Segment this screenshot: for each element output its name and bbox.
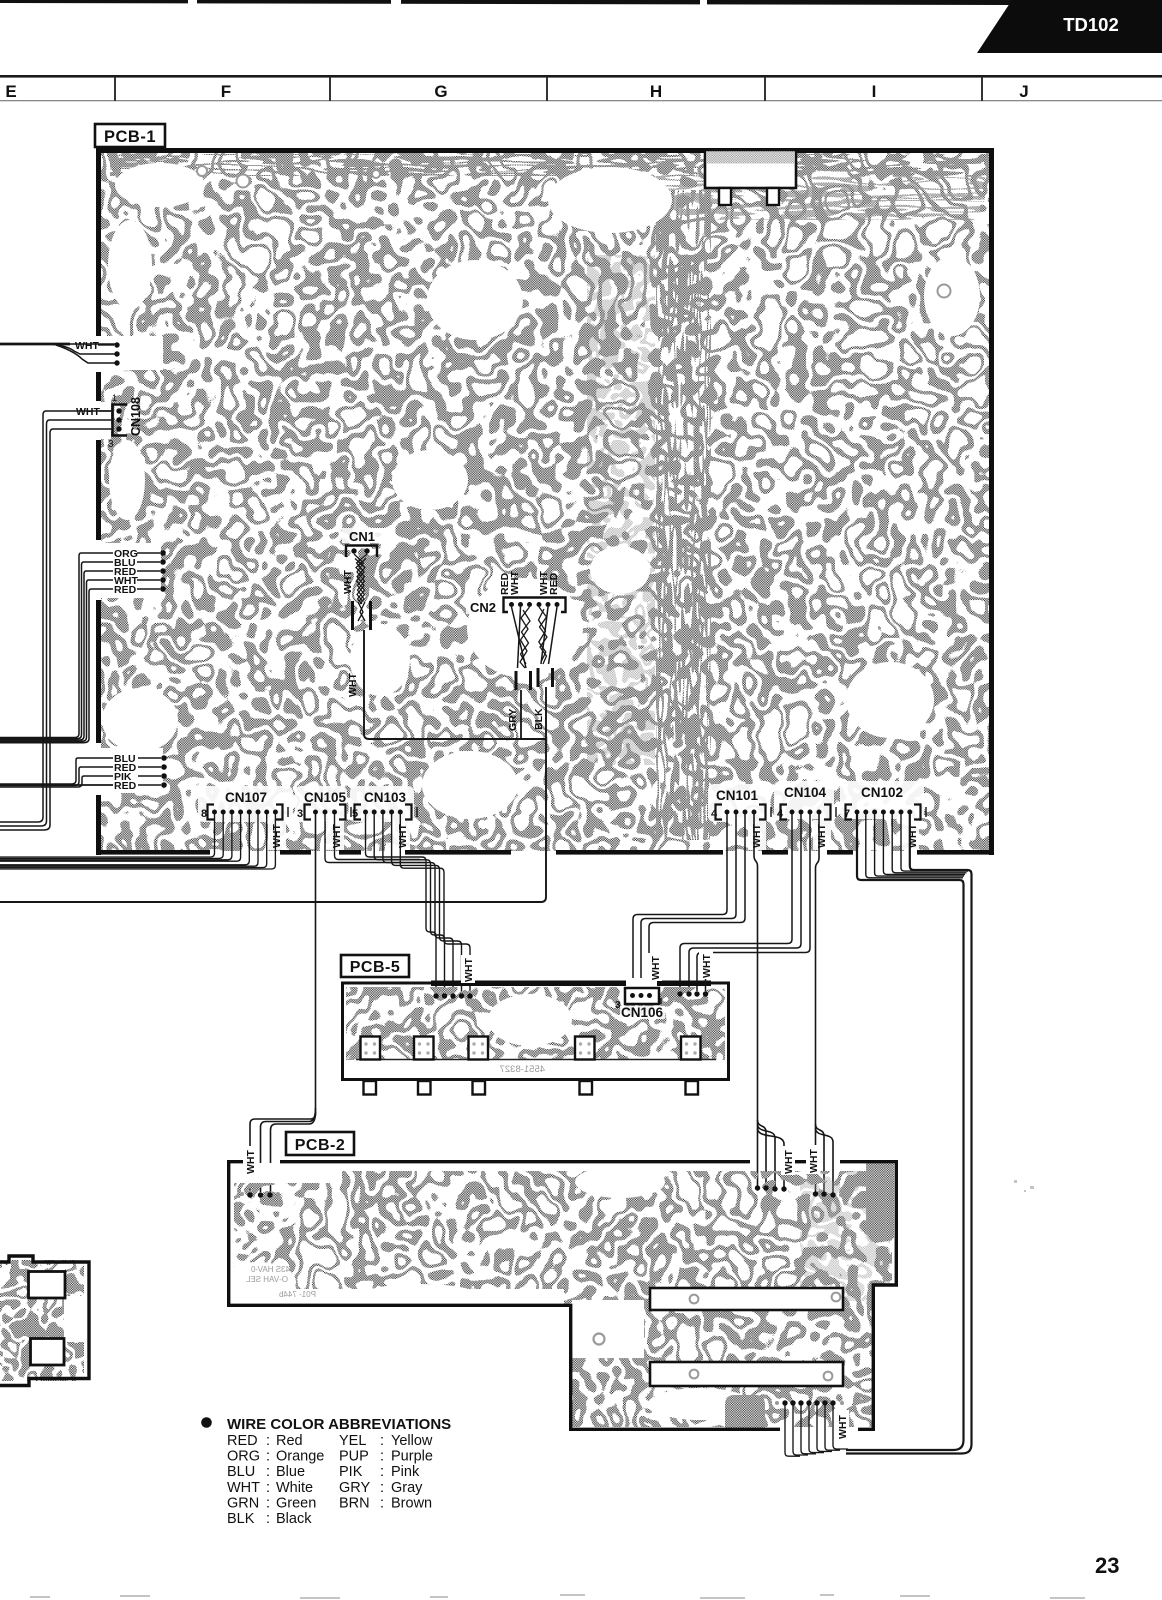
wire CN101 pins1-3 to CN106 xyxy=(633,814,745,987)
svg-text:4551-8327: 4551-8327 xyxy=(500,1064,545,1075)
svg-text:WHT: WHT xyxy=(76,406,100,418)
connector footprint component at top edge xyxy=(705,150,796,205)
node WHT wires entering top-left xyxy=(0,344,117,363)
svg-text:WHT: WHT xyxy=(701,954,713,978)
svg-text:Gray: Gray xyxy=(391,1480,423,1496)
svg-text:H: H xyxy=(650,82,662,101)
board PCB-1 label box xyxy=(95,124,165,147)
svg-text:CN106: CN106 xyxy=(621,1005,664,1020)
svg-text:43S HAV-0: 43S HAV-0 xyxy=(250,1265,290,1274)
board PCB-2 label box xyxy=(286,1132,354,1155)
wire CN105 pin1 long run to PCB-2 xyxy=(250,814,316,1193)
label WHT xyxy=(243,1146,257,1175)
svg-text::: : xyxy=(266,1433,270,1449)
svg-text:Purple: Purple xyxy=(391,1449,433,1465)
svg-text:CN105: CN105 xyxy=(304,790,347,805)
svg-text:Blue: Blue xyxy=(276,1464,305,1480)
PCB-2 silkscreen mirrored text xyxy=(245,1265,316,1299)
connector plug GRY xyxy=(516,671,531,690)
wire stub pin4 xyxy=(705,977,707,991)
node PCB-2 top pins group1 xyxy=(755,1185,787,1191)
PCB-5 pad box 5 xyxy=(681,1037,701,1060)
PCB-5 bottom rail line xyxy=(356,1059,716,1061)
connector CN102 xyxy=(844,785,926,820)
component bottom-left xyxy=(0,1256,89,1386)
svg-text:E: E xyxy=(5,82,16,101)
svg-text:WHT: WHT xyxy=(397,824,409,848)
svg-text:BLU: BLU xyxy=(227,1464,255,1480)
svg-text:23: 23 xyxy=(1095,1553,1119,1578)
PCB-5 pad box 3 xyxy=(469,1037,489,1060)
svg-text:PIK: PIK xyxy=(339,1464,363,1480)
svg-text:RED: RED xyxy=(548,572,560,595)
svg-text::: : xyxy=(266,1449,270,1465)
svg-text::: : xyxy=(266,1511,270,1527)
page top rule line xyxy=(0,0,1012,5)
svg-text:CN1: CN1 xyxy=(349,529,375,544)
svg-text:BLK: BLK xyxy=(227,1511,255,1527)
connector CN2 xyxy=(466,598,566,616)
svg-text:CN2: CN2 xyxy=(470,600,496,615)
model banner TD102 xyxy=(977,0,1162,53)
svg-text:J: J xyxy=(1019,82,1028,101)
board PCB-1 outline right border xyxy=(989,148,994,855)
svg-text:3: 3 xyxy=(108,439,114,450)
PCB-2 white clearings xyxy=(220,1163,752,1420)
wire CN105 pins 2-3 join CN103 bundle xyxy=(325,814,425,863)
svg-text:WHT: WHT xyxy=(342,570,354,594)
grid ruler band top line xyxy=(0,75,1162,78)
node pins xyxy=(114,342,119,365)
pad circle xyxy=(594,1334,605,1345)
wire white gaps under left labels xyxy=(101,336,163,793)
svg-text:White: White xyxy=(276,1480,313,1496)
legend bullet xyxy=(201,1417,212,1428)
svg-text:WHT: WHT xyxy=(347,673,359,697)
connector plug CN1 xyxy=(353,601,371,630)
svg-text:GRY: GRY xyxy=(339,1480,370,1496)
wire CN102 bundle right and down xyxy=(846,814,972,1454)
board PCB-2 outline xyxy=(229,1162,897,1430)
svg-text:WHT: WHT xyxy=(227,1480,260,1496)
label WHT xyxy=(806,1145,820,1174)
grid divider xyxy=(546,77,548,101)
svg-text::: : xyxy=(266,1480,270,1496)
board PCB-1 outline top border xyxy=(96,148,994,153)
svg-text:Pink: Pink xyxy=(391,1464,420,1480)
node PCB-5 right pins xyxy=(677,991,708,996)
svg-text:WHT: WHT xyxy=(783,1150,795,1174)
svg-text:WHT: WHT xyxy=(751,824,763,848)
connector plug BLK xyxy=(538,668,553,687)
svg-text:I: I xyxy=(872,82,877,101)
grid ruler band bottom line xyxy=(0,100,1162,101)
wire CN101 pin4 to PCB-2 xyxy=(754,814,784,1187)
svg-text:WHT: WHT xyxy=(509,571,521,595)
board PCB-1 outline left border segments xyxy=(96,148,101,855)
svg-text:P01- 744b: P01- 744b xyxy=(279,1290,316,1299)
node PCB-2 bottom pins xyxy=(782,1400,835,1405)
PCB-5 bottom strip xyxy=(346,1061,725,1078)
svg-text:O-VAH SEL: O-VAH SEL xyxy=(245,1275,288,1284)
svg-text:3: 3 xyxy=(297,808,303,820)
svg-text::: : xyxy=(380,1449,384,1465)
white zone under bottom connectors xyxy=(198,781,924,850)
svg-text:TD102: TD102 xyxy=(1063,14,1119,35)
svg-text:CN107: CN107 xyxy=(225,790,267,805)
PCB-1 pad circles xyxy=(197,166,951,298)
svg-text:BLK: BLK xyxy=(533,708,545,730)
gap for CN106 wires xyxy=(626,978,657,988)
board PCB-5 outline xyxy=(343,983,729,1080)
svg-text:PCB-1: PCB-1 xyxy=(104,128,156,146)
print artifacts xyxy=(30,1180,1085,1599)
svg-text:GRN: GRN xyxy=(227,1495,259,1511)
wire dash to pin xyxy=(98,344,114,346)
connector slot R2 xyxy=(650,1362,843,1386)
svg-text:Yellow: Yellow xyxy=(391,1433,433,1449)
PCB-2 dense corner block xyxy=(866,1163,894,1241)
svg-text::: : xyxy=(266,1464,270,1480)
label WHT xyxy=(781,1146,795,1175)
svg-text::: : xyxy=(380,1464,384,1480)
wire BLK to left page edge xyxy=(0,687,546,902)
svg-text:PCB-2: PCB-2 xyxy=(295,1137,346,1154)
svg-text:WHT: WHT xyxy=(245,1150,257,1174)
grid divider xyxy=(764,77,766,101)
PCB-5 white clearing xyxy=(488,994,572,1046)
wire CN103 bundle down to PCB-5 xyxy=(366,814,471,993)
PCB-5 pad box 4 xyxy=(575,1037,595,1060)
svg-text:YEL: YEL xyxy=(339,1433,366,1449)
connector CN104 xyxy=(777,785,836,820)
connector CN106 xyxy=(615,988,665,1020)
PCB-1 white clearings xyxy=(102,163,980,819)
svg-text:Red: Red xyxy=(276,1433,303,1449)
svg-text:8: 8 xyxy=(201,808,207,820)
svg-text:WHT: WHT xyxy=(808,1149,820,1173)
node pins xyxy=(160,550,166,592)
board PCB-5 label box xyxy=(341,955,409,977)
svg-text:GRY: GRY xyxy=(507,709,519,731)
connector CN103 xyxy=(352,790,417,820)
PCB-2 gray protrusion xyxy=(725,1395,765,1431)
wire CN2 crossing leads left pair xyxy=(512,607,527,668)
svg-text:CN101: CN101 xyxy=(716,788,759,803)
svg-text:Green: Green xyxy=(276,1495,316,1511)
connector CN1 xyxy=(342,528,382,557)
wire CN108 bundle to left edge xyxy=(0,411,113,830)
grid divider xyxy=(114,77,116,101)
board PCB-1 outline bottom border segments xyxy=(96,850,994,855)
label WHT xyxy=(648,953,662,981)
wire twisted pair braid CN1 xyxy=(354,554,367,604)
wire PCB-2 bottom bundle xyxy=(785,1405,848,1456)
node pins xyxy=(161,755,167,788)
svg-text:CN102: CN102 xyxy=(861,785,903,800)
svg-text:PUP: PUP xyxy=(339,1449,369,1465)
svg-text:WHT: WHT xyxy=(75,340,99,352)
svg-text::: : xyxy=(380,1480,384,1496)
svg-text:RED: RED xyxy=(114,584,137,596)
svg-text::: : xyxy=(380,1495,384,1511)
svg-text:F: F xyxy=(221,82,231,101)
svg-text:CN108: CN108 xyxy=(129,397,143,436)
connector CN108 xyxy=(108,393,143,450)
wire group BLU/RED/PIK/RED xyxy=(0,758,161,787)
svg-text:WHT: WHT xyxy=(837,1415,849,1439)
svg-text:WIRE COLOR ABBREVIATIONS: WIRE COLOR ABBREVIATIONS xyxy=(227,1416,451,1433)
connector CN107 xyxy=(201,790,288,820)
PCB-5 thick top bar xyxy=(431,981,711,987)
wire CN107 bundle to left page edge xyxy=(0,814,275,869)
grid divider xyxy=(329,77,331,101)
PCB-5 pad box 2 xyxy=(414,1037,434,1060)
svg-text:CN103: CN103 xyxy=(364,790,407,805)
label WHT xyxy=(834,1410,849,1440)
board PCB-2 copper texture xyxy=(228,1161,898,1433)
wire CN104 pins1-3 to PCB-5 xyxy=(680,814,810,991)
board PCB-1 copper texture xyxy=(96,148,994,855)
grid divider xyxy=(981,77,983,101)
connector CN105 xyxy=(297,790,351,820)
node PCB-2 top pins group2 xyxy=(813,1191,836,1197)
wire group ORG/BLU/RED/WHT/RED xyxy=(0,553,160,743)
svg-text:ORG: ORG xyxy=(227,1449,260,1465)
legend rows xyxy=(227,1433,433,1527)
svg-text:WHT: WHT xyxy=(331,824,343,848)
svg-text:Black: Black xyxy=(276,1511,312,1527)
svg-text::: : xyxy=(380,1433,384,1449)
wire GRY xyxy=(520,690,522,739)
svg-text:WHT: WHT xyxy=(463,958,475,982)
board PCB-5 copper texture xyxy=(342,982,730,1082)
svg-text::: : xyxy=(266,1495,270,1511)
connector slot R1 xyxy=(650,1288,843,1310)
connector CN101 xyxy=(711,788,771,820)
PCB-5 pad box 1 xyxy=(361,1037,381,1060)
node PCB-2 left pins xyxy=(247,1192,272,1197)
svg-text:BRN: BRN xyxy=(339,1495,370,1511)
svg-text:G: G xyxy=(434,82,447,101)
PCB-5 feet xyxy=(364,1081,699,1095)
svg-text:WHT: WHT xyxy=(271,824,283,848)
svg-text:WHT: WHT xyxy=(650,956,662,980)
wire CN2 crossing leads right pair xyxy=(541,607,557,664)
wire CN104 pin4 to PCB-2 xyxy=(816,814,834,1193)
label WHT xyxy=(461,955,475,983)
svg-text:Orange: Orange xyxy=(276,1449,324,1465)
svg-text:1: 1 xyxy=(112,393,117,403)
wire CN1 to bottom xyxy=(364,630,546,739)
wire twisted braid CN2 right xyxy=(539,607,548,664)
wire twisted braid CN2 left xyxy=(520,607,530,668)
svg-text:CN104: CN104 xyxy=(784,785,827,800)
node PCB-5 left pins xyxy=(433,993,472,998)
svg-text:RED: RED xyxy=(114,780,137,792)
svg-text:RED: RED xyxy=(227,1433,258,1449)
svg-text:Brown: Brown xyxy=(391,1495,432,1511)
svg-text:PCB-5: PCB-5 xyxy=(350,959,401,976)
svg-text:WHT: WHT xyxy=(816,824,828,848)
label WHT xyxy=(699,951,713,979)
